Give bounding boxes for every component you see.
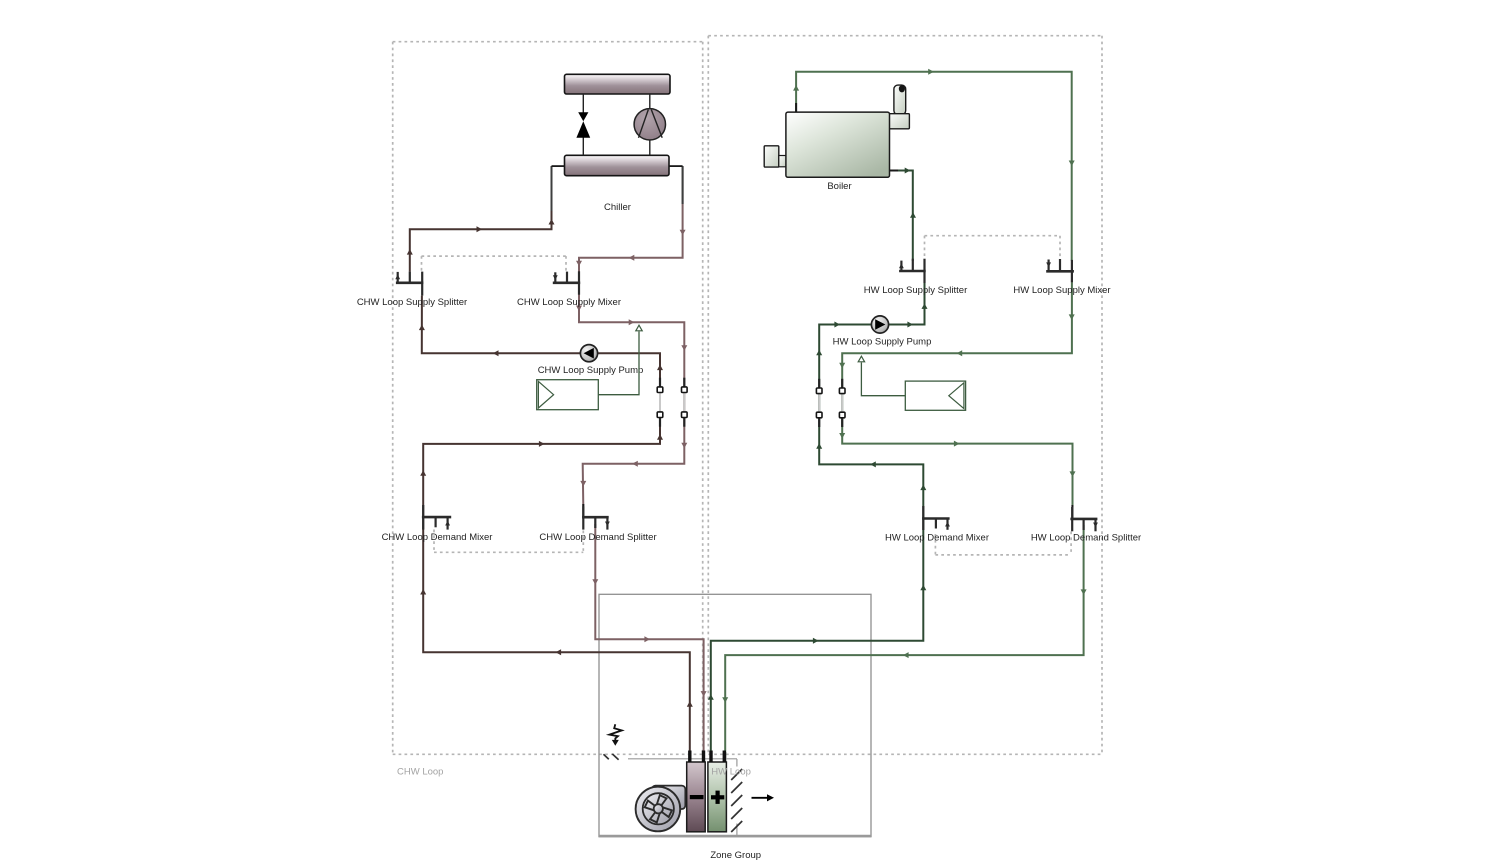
zone heating coil xyxy=(708,762,727,832)
zone wall hatch marks xyxy=(731,769,742,780)
svg-text:CHW Loop Supply Splitter: CHW Loop Supply Splitter xyxy=(357,297,467,308)
flow arrows HW demand xyxy=(1081,589,1087,595)
wire HW supply mixer to demand splitter xyxy=(842,282,1072,507)
svg-text:Zone Group: Zone Group xyxy=(710,850,761,861)
svg-text:HW Loop Supply Splitter: HW Loop Supply Splitter xyxy=(864,285,968,296)
HW Loop Demand Mixer xyxy=(922,517,950,520)
zone coil port stubs xyxy=(688,751,691,763)
zone supply fan housing xyxy=(652,786,685,809)
svg-text:HW Loop Demand Mixer: HW Loop Demand Mixer xyxy=(885,533,989,544)
zone boundary slash marks xyxy=(604,754,609,759)
svg-text:HW Loop Supply Mixer: HW Loop Supply Mixer xyxy=(1013,285,1110,296)
HW Loop Supply Splitter xyxy=(899,270,926,273)
CHW Loop Supply Splitter xyxy=(396,281,423,284)
wire boiler outlet to HW supply mixer xyxy=(796,72,1072,261)
HW setpoint connector xyxy=(861,363,905,396)
HW Loop dashed boundary box xyxy=(708,35,1102,37)
wire HW demand splitter to zone heating coil xyxy=(725,525,1083,762)
svg-text:CHW Loop Supply Pump: CHW Loop Supply Pump xyxy=(538,365,644,376)
svg-text:HW Loop Demand Splitter: HW Loop Demand Splitter xyxy=(1031,533,1141,544)
adiabatic pipe on CHW supply-to-demand line xyxy=(683,378,685,390)
Zone Group box xyxy=(599,594,871,836)
Boiler chimney base xyxy=(889,114,909,129)
CHW setpoint connector xyxy=(598,332,639,395)
adiabatic pipe on CHW return riser xyxy=(659,378,661,390)
svg-text:HW Loop Supply Pump: HW Loop Supply Pump xyxy=(833,337,932,348)
svg-text:CHW Loop Demand Splitter: CHW Loop Demand Splitter xyxy=(539,532,656,543)
wire CHW demand splitter to zone cooling coil xyxy=(595,524,703,762)
zone wall dashes xyxy=(736,759,738,767)
svg-text:HW Loop: HW Loop xyxy=(711,767,751,778)
wire HW supply splitter to boiler inlet xyxy=(890,171,913,262)
CHW setpoint manager box xyxy=(537,380,599,410)
zone bottom wall line xyxy=(599,835,871,838)
HW Loop Supply Pump xyxy=(871,316,888,333)
zone air duct line xyxy=(628,758,737,760)
svg-text:CHW Loop Demand Mixer: CHW Loop Demand Mixer xyxy=(382,532,493,543)
Chiller port stubs xyxy=(552,165,565,167)
Chiller evaporator bar xyxy=(565,155,670,175)
wire chiller outlet to supply mixer xyxy=(579,166,683,272)
CHW Loop Supply Pump xyxy=(580,345,597,362)
HW Loop Supply Mixer xyxy=(1046,270,1074,273)
HW demand-side inner dashed bracket xyxy=(935,554,1071,556)
svg-text:CHW Loop: CHW Loop xyxy=(397,767,443,778)
flow arrows HW supply xyxy=(793,85,799,91)
Chiller expansion valve xyxy=(582,94,584,113)
zone infiltration zigzag xyxy=(609,724,621,740)
HW supply-side inner dashed bracket xyxy=(925,235,1061,237)
flow arrows CHW demand xyxy=(592,579,598,585)
HW setpoint manager box xyxy=(905,381,965,410)
wire zone heating coil to HW demand mixer and on to supply pump xyxy=(711,283,925,762)
CHW Loop Demand Splitter xyxy=(582,516,609,519)
zone exhaust arrow xyxy=(752,797,769,799)
wire CHW supply mixer to demand splitter xyxy=(579,283,684,506)
zone supply fan xyxy=(636,787,681,832)
CHW Loop Demand Mixer xyxy=(422,516,451,519)
zone cooling coil xyxy=(687,762,706,832)
flow arrows CHW supply xyxy=(407,249,413,255)
Boiler left fitting xyxy=(764,146,779,167)
CHW supply-side inner dashed bracket xyxy=(422,255,567,257)
adiabatic pipe on HW return riser xyxy=(818,379,820,391)
adiabatic pipe on HW supply-to-demand line xyxy=(841,379,843,391)
CHW demand-side inner dashed bracket xyxy=(434,551,583,553)
HW Loop Demand Splitter xyxy=(1070,518,1097,521)
svg-text:Boiler: Boiler xyxy=(827,181,851,192)
wire zone cooling coil to CHW demand mixer and on to supply pump xyxy=(422,296,690,762)
CHW Loop Supply Mixer xyxy=(553,281,580,284)
svg-text:CHW Loop Supply Mixer: CHW Loop Supply Mixer xyxy=(517,297,621,308)
Boiler body xyxy=(786,112,890,177)
wire CHW splitter to chiller inlet xyxy=(410,166,552,272)
Chiller condenser bar xyxy=(565,74,671,94)
CHW Loop dashed boundary box xyxy=(393,41,703,43)
svg-text:Chiller: Chiller xyxy=(604,202,631,213)
Boiler chimney xyxy=(894,85,906,114)
Chiller compressor xyxy=(649,94,651,109)
